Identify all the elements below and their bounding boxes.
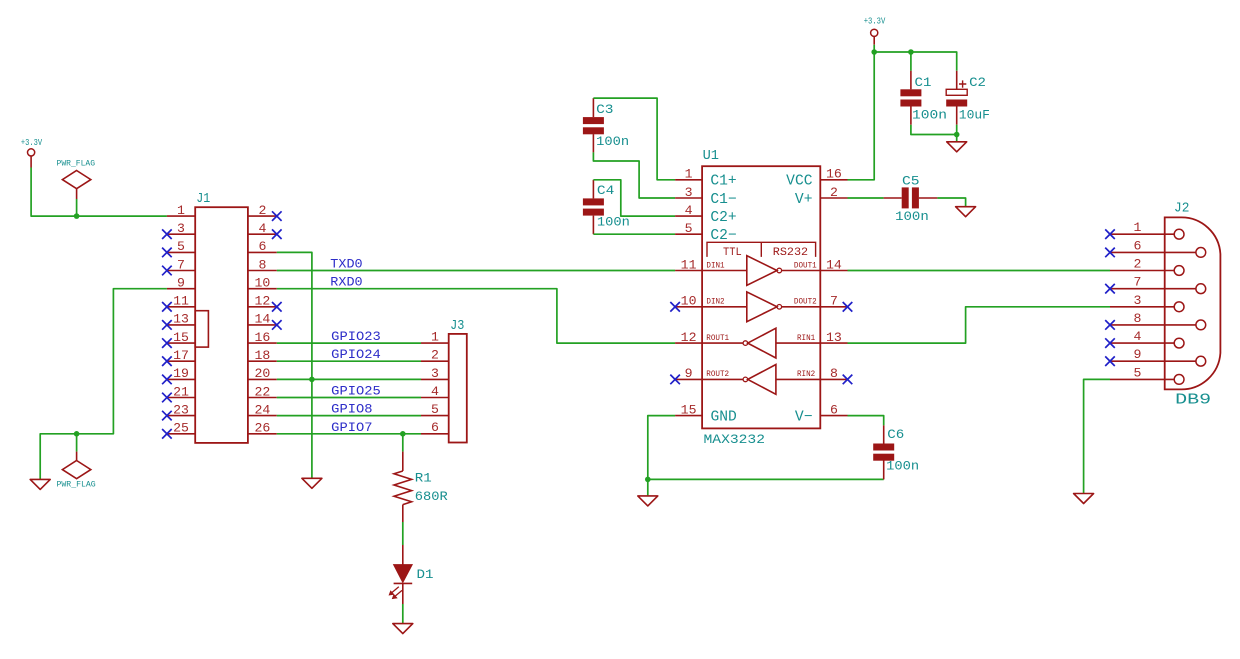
wire PWR_FLAG stem (top) xyxy=(76,199,78,216)
net label TXD0 xyxy=(330,258,362,272)
junction ground rail (bottom PWR_FLAG) xyxy=(74,431,80,437)
svg-text:GND: GND xyxy=(711,409,737,425)
no-connect U1 pin 7 xyxy=(843,302,853,312)
svg-text:RXD0: RXD0 xyxy=(330,276,362,290)
ground GND (below J2) xyxy=(1074,494,1094,504)
svg-text:C2+: C2+ xyxy=(710,210,736,226)
IC U1 MAX3232 body xyxy=(675,166,847,428)
wire U1 GND pin 15 to ground xyxy=(648,416,675,480)
U1 receiver R2 (ROUT2/RIN2) xyxy=(702,365,820,395)
svg-text:V+: V+ xyxy=(795,192,813,208)
svg-text:100n: 100n xyxy=(596,134,629,149)
reference J2 xyxy=(1174,201,1189,217)
wire +3.3V to U1 VCC pin 16 xyxy=(848,45,875,180)
svg-text:5: 5 xyxy=(177,239,185,254)
svg-text:6: 6 xyxy=(830,402,838,417)
wire GPIO23: J1 pin 16 to J3 pin 1 xyxy=(277,342,421,344)
reference J1 xyxy=(196,191,210,207)
svg-text:5: 5 xyxy=(1134,365,1142,380)
no-connect J1 pin 14 xyxy=(272,320,282,330)
net label GPIO23 xyxy=(331,330,381,344)
svg-text:C5: C5 xyxy=(902,174,920,189)
svg-text:DIN1: DIN1 xyxy=(706,261,724,270)
value DB9 xyxy=(1175,392,1211,408)
svg-text:DIN2: DIN2 xyxy=(706,298,724,307)
wire +3.3V to J1 pin 1 xyxy=(31,168,167,217)
no-connect J1 pin 25 xyxy=(162,429,172,439)
svg-text:7: 7 xyxy=(1134,275,1142,290)
svg-text:PWR_FLAG: PWR_FLAG xyxy=(57,481,96,490)
no-connect U1 pin 9 xyxy=(670,375,680,385)
svg-text:4: 4 xyxy=(685,203,693,218)
wire D1 to ground xyxy=(402,604,404,623)
J2 pin numbers xyxy=(1134,220,1142,380)
svg-text:6: 6 xyxy=(258,239,266,254)
svg-text:1: 1 xyxy=(431,330,439,345)
power flag PWR_FLAG (top) xyxy=(57,159,96,199)
svg-text:RIN2: RIN2 xyxy=(797,370,815,379)
junction +3.3V rail xyxy=(74,213,80,219)
svg-text:1: 1 xyxy=(177,203,185,218)
svg-text:2: 2 xyxy=(830,185,838,200)
capacitor C6 100n xyxy=(873,425,919,479)
no-connect J2 pin 6 xyxy=(1105,248,1115,258)
svg-text:GPIO7: GPIO7 xyxy=(331,421,372,435)
junction ground bus below U1 xyxy=(645,477,651,483)
svg-text:10: 10 xyxy=(254,276,270,291)
svg-text:GPIO8: GPIO8 xyxy=(331,403,372,417)
svg-text:2: 2 xyxy=(258,203,266,218)
no-connect J2 pin 4 xyxy=(1105,338,1115,348)
net label GPIO24 xyxy=(331,348,381,362)
svg-text:23: 23 xyxy=(173,402,189,417)
junction J1 pin 20 / ground line xyxy=(309,377,315,383)
svg-text:VCC: VCC xyxy=(786,174,813,190)
capacitor C3 100n xyxy=(583,98,629,152)
wire GPIO24: J1 pin 18 to J3 pin 2 xyxy=(277,360,421,362)
svg-text:10: 10 xyxy=(681,294,697,309)
svg-text:26: 26 xyxy=(254,421,270,436)
J1 pin numbers xyxy=(173,203,270,436)
svg-text:6: 6 xyxy=(431,420,439,435)
U1 pin numbers xyxy=(681,167,842,418)
no-connect U1 pin 8 xyxy=(843,375,853,385)
svg-text:9: 9 xyxy=(1134,347,1142,362)
svg-text:10uF: 10uF xyxy=(959,107,990,122)
svg-text:14: 14 xyxy=(254,312,270,327)
junction +3.3V / decoupling caps xyxy=(871,49,877,55)
svg-text:J3: J3 xyxy=(450,318,464,334)
svg-text:4: 4 xyxy=(431,384,439,399)
wire C1 top xyxy=(910,52,912,71)
resistor R1 680R xyxy=(394,452,448,522)
svg-text:16: 16 xyxy=(826,167,842,182)
svg-text:5: 5 xyxy=(685,221,693,236)
wire C3 top to U1 pin 1 xyxy=(593,98,675,180)
ground GND (below J1) xyxy=(302,478,322,488)
svg-text:PWR_FLAG: PWR_FLAG xyxy=(57,159,96,168)
ground GND (right of C5) xyxy=(956,207,976,217)
wire J1 pin 6 to ground below J1 xyxy=(277,252,312,478)
svg-text:12: 12 xyxy=(254,294,270,309)
svg-text:J1: J1 xyxy=(196,191,210,207)
svg-text:C3: C3 xyxy=(596,102,613,117)
wire C1 bottom to C2 bottom xyxy=(911,125,957,135)
svg-text:20: 20 xyxy=(254,366,270,381)
J3 pin numbers xyxy=(431,330,439,436)
net label GPIO8 xyxy=(331,403,372,417)
no-connect J2 pin 7 xyxy=(1105,284,1115,294)
svg-text:4: 4 xyxy=(1134,329,1142,344)
svg-text:ROUT2: ROUT2 xyxy=(706,370,729,379)
svg-text:1: 1 xyxy=(1134,220,1142,235)
svg-text:V−: V− xyxy=(795,409,813,425)
svg-text:12: 12 xyxy=(681,330,697,345)
svg-text:3: 3 xyxy=(685,185,693,200)
ground GND (below U1) xyxy=(638,496,658,506)
wire junction to ground (below C2) xyxy=(956,135,958,142)
reference U1 xyxy=(703,148,719,164)
power symbol +3.3V PWR01 xyxy=(21,138,43,168)
svg-text:4: 4 xyxy=(258,221,266,236)
ground GND (bottom left) xyxy=(30,479,50,489)
wire J3 pin 6 junction to R1 xyxy=(402,434,404,452)
svg-text:7: 7 xyxy=(177,257,185,272)
svg-text:9: 9 xyxy=(685,366,693,381)
no-connect J1 pin 11 xyxy=(162,302,172,312)
svg-text:3: 3 xyxy=(431,366,439,381)
no-connect J2 pin 8 xyxy=(1105,320,1115,330)
connector J1 body xyxy=(167,207,277,443)
LED D1 xyxy=(389,545,434,604)
no-connect U1 pin 10 xyxy=(670,302,680,312)
svg-text:C1+: C1+ xyxy=(710,174,736,190)
wire C5 to ground xyxy=(937,198,965,206)
no-connect J1 pin 2 xyxy=(272,211,282,221)
svg-text:2: 2 xyxy=(431,348,439,363)
svg-text:8: 8 xyxy=(830,366,838,381)
capacitor C5 100n xyxy=(884,174,938,224)
svg-text:TTL: TTL xyxy=(723,247,742,259)
svg-text:100n: 100n xyxy=(912,107,947,122)
wire C3 bottom to U1 pin 3 xyxy=(593,152,675,198)
svg-text:DB9: DB9 xyxy=(1175,392,1211,408)
svg-text:C4: C4 xyxy=(597,183,615,198)
no-connect J1 pin 4 xyxy=(272,229,282,239)
svg-text:13: 13 xyxy=(173,312,189,327)
svg-text:5: 5 xyxy=(431,402,439,417)
wire C4 top to U1 pin 4 xyxy=(593,180,675,216)
junction J1 pin 26 / R1 xyxy=(400,431,406,437)
svg-text:DOUT2: DOUT2 xyxy=(794,298,817,307)
svg-text:GPIO25: GPIO25 xyxy=(331,385,381,399)
svg-text:C1−: C1− xyxy=(710,192,736,208)
svg-text:D1: D1 xyxy=(417,567,434,582)
svg-text:15: 15 xyxy=(173,330,189,345)
svg-text:3: 3 xyxy=(177,221,185,236)
svg-text:8: 8 xyxy=(258,257,266,272)
wire J2 pin 5 to ground xyxy=(1084,379,1110,493)
svg-text:1: 1 xyxy=(685,167,693,182)
svg-text:C2: C2 xyxy=(969,75,986,90)
svg-text:GPIO23: GPIO23 xyxy=(331,330,381,344)
svg-text:ROUT1: ROUT1 xyxy=(706,334,729,343)
svg-text:6: 6 xyxy=(1134,238,1142,253)
connector J2 DB9 body xyxy=(1110,217,1220,389)
wire +3.3V rail to C1 and C2 xyxy=(874,52,957,71)
svg-text:RIN1: RIN1 xyxy=(797,334,815,343)
svg-text:15: 15 xyxy=(681,402,697,417)
svg-text:RS232: RS232 xyxy=(773,247,808,259)
U1 TTL/RS232 bracket xyxy=(707,242,816,259)
svg-text:21: 21 xyxy=(173,384,189,399)
wire TXD0: J1 pin 8 to U1 DIN1 xyxy=(277,270,675,272)
svg-text:R1: R1 xyxy=(415,471,432,486)
wire GPIO8: J1 pin 24 to J3 pin 5 xyxy=(277,415,421,417)
svg-text:13: 13 xyxy=(826,330,842,345)
svg-text:17: 17 xyxy=(173,348,189,363)
svg-text:3: 3 xyxy=(1134,293,1142,308)
svg-text:24: 24 xyxy=(254,402,270,417)
no-connect J1 pin 7 xyxy=(162,266,172,276)
wire ground bus to C6 bottom xyxy=(648,478,884,480)
value MAX3232 xyxy=(704,432,766,447)
no-connect J1 pin 12 xyxy=(272,302,282,312)
svg-text:9: 9 xyxy=(177,276,185,291)
connector J3 body xyxy=(421,334,467,443)
svg-text:100n: 100n xyxy=(895,209,929,224)
svg-text:U1: U1 xyxy=(703,148,719,164)
svg-text:11: 11 xyxy=(681,257,697,272)
svg-text:MAX3232: MAX3232 xyxy=(704,432,766,447)
no-connect J1 pin 19 xyxy=(162,375,172,385)
U1 driver T2 (DIN2/DOUT2) xyxy=(702,292,820,322)
no-connect J1 pin 17 xyxy=(162,356,172,366)
svg-text:25: 25 xyxy=(173,421,189,436)
U1 driver T1 (DIN1/DOUT1) xyxy=(702,256,820,286)
reference J3 xyxy=(450,318,464,334)
svg-text:J2: J2 xyxy=(1174,201,1189,217)
wire C2 bottom xyxy=(956,125,958,135)
wire RXD0: J1 pin 10 to U1 ROUT1 xyxy=(277,289,675,343)
wire J1 pin 20 to J3 pin 3 xyxy=(277,378,421,380)
svg-text:TXD0: TXD0 xyxy=(330,258,362,272)
net label GPIO25 xyxy=(331,385,381,399)
svg-text:7: 7 xyxy=(830,294,838,309)
capacitor C1 100n xyxy=(900,71,947,125)
no-connect J1 pin 3 xyxy=(162,229,172,239)
ground GND (below C2) xyxy=(947,142,967,152)
wire U1 V- pin 6 to C6 xyxy=(848,416,884,426)
no-connect J1 pin 15 xyxy=(162,338,172,348)
svg-text:18: 18 xyxy=(254,348,270,363)
junction C1 tap xyxy=(908,49,914,55)
svg-text:GPIO24: GPIO24 xyxy=(331,348,381,362)
wire U1 RIN1 pin 13 to J2 pin 3 xyxy=(848,307,1111,343)
svg-text:C6: C6 xyxy=(887,427,904,442)
U1 receiver R1 (ROUT1/RIN1) xyxy=(702,328,820,358)
wire C4 bottom to U1 pin 5 xyxy=(593,233,675,235)
capacitor C4 100n xyxy=(583,180,630,234)
no-connect J1 pin 5 xyxy=(162,248,172,258)
wire U1 DOUT1 pin 14 to J2 pin 2 xyxy=(848,270,1111,272)
no-connect J2 pin 9 xyxy=(1105,356,1115,366)
capacitor C2 10uF (polarized) xyxy=(946,71,990,125)
power symbol +3.3V PWR02 xyxy=(864,17,886,45)
svg-text:2: 2 xyxy=(1134,257,1142,272)
svg-text:16: 16 xyxy=(254,330,270,345)
wire PWR_FLAG stem (bottom) xyxy=(76,434,78,452)
svg-text:14: 14 xyxy=(826,257,842,272)
wire junction to ground symbol xyxy=(647,479,649,495)
net label GPIO7 xyxy=(331,421,372,435)
wire J1 pin 9 to ground rail xyxy=(40,289,167,480)
no-connect J2 pin 1 xyxy=(1105,229,1115,239)
svg-text:C1: C1 xyxy=(915,75,932,90)
svg-text:DOUT1: DOUT1 xyxy=(794,261,817,270)
no-connect J1 pin 21 xyxy=(162,393,172,403)
net label RXD0 xyxy=(330,276,362,290)
junction C2 / ground xyxy=(954,132,960,138)
ground GND (below D1) xyxy=(393,624,413,634)
svg-text:19: 19 xyxy=(173,366,189,381)
wire GPIO25: J1 pin 22 to J3 pin 4 xyxy=(277,397,421,399)
power flag PWR_FLAG (bottom) xyxy=(57,452,96,490)
svg-text:100n: 100n xyxy=(886,458,919,473)
U1 pin names xyxy=(710,174,812,426)
svg-text:+3.3V: +3.3V xyxy=(21,138,43,148)
svg-text:8: 8 xyxy=(1134,311,1142,326)
wire R1 to D1 xyxy=(402,522,404,545)
svg-text:680R: 680R xyxy=(415,489,448,504)
svg-text:+3.3V: +3.3V xyxy=(864,17,886,27)
no-connect J1 pin 23 xyxy=(162,411,172,421)
svg-text:22: 22 xyxy=(254,384,270,399)
wire U1 V+ pin 2 to C5 xyxy=(848,197,884,199)
no-connect J1 pin 13 xyxy=(162,320,172,330)
svg-text:11: 11 xyxy=(173,294,189,309)
wire GPIO7: J1 pin 26 to J3 pin 6 xyxy=(277,433,421,435)
